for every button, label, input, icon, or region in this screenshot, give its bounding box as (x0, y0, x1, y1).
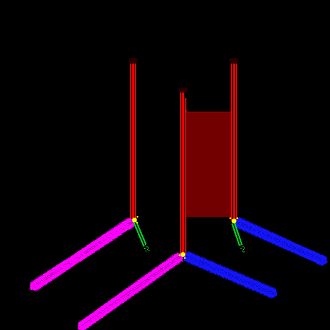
node 2 marker (yellow) (229, 217, 238, 223)
block top edge (subtle brighter border) (187, 111, 231, 113)
string middle (3 red lines) (181, 93, 186, 254)
node 3 marker (yellow) (179, 252, 186, 259)
spring blue node3 to lower-right (184, 252, 278, 298)
string right (3 red lines) (232, 64, 237, 221)
string left (3 red lines) (131, 64, 136, 220)
spring magenta node1 to lower-left (30, 219, 135, 291)
spring magenta node3 to bottom-left (78, 254, 183, 330)
spring blue node2 to lower-right (235, 219, 328, 266)
anchor marker middle string top (faint dark red) (178, 87, 188, 92)
connector stub bright red at block top-left (185, 110, 187, 113)
block mass (dark red rectangle) (187, 112, 231, 217)
anchor marker right string top (faint dark red) (229, 58, 239, 63)
anchor marker left string top (faint dark red) (128, 58, 138, 63)
damper green at node2 (two strands + scatter) (234, 223, 242, 245)
node 1 marker (yellow) (132, 216, 138, 224)
damper green at node1 (two strands + scatter) (136, 222, 146, 245)
